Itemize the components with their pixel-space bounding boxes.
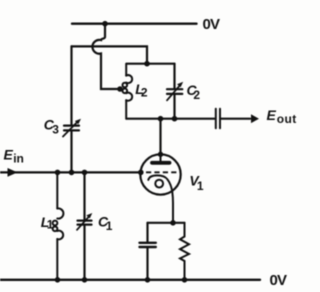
svg-text:E: E (4, 147, 14, 163)
node dot L1 column (55, 170, 61, 176)
svg-text:1: 1 (197, 179, 204, 193)
inductor L1 (53, 172, 64, 279)
svg-text:out: out (277, 112, 297, 126)
node cathode junction (170, 220, 176, 226)
node L1 bottom junction (55, 277, 61, 283)
svg-text:E: E (267, 107, 277, 123)
arrow input (8, 168, 18, 177)
capacitor C3 (variable) (63, 46, 81, 172)
tube V1 envelope (140, 154, 180, 194)
node junction on top rail (102, 21, 108, 27)
node resistor bottom junction (182, 277, 188, 283)
node anode junction (158, 116, 164, 122)
node bypass capacitor bottom junction (145, 277, 151, 283)
node dot C3 column (69, 170, 75, 176)
tube anode plate (160, 155, 162, 162)
tube grid dashed (146, 171, 178, 173)
wire ground to L2 tap with hop over crossing (92, 24, 119, 89)
capacitor coupling (output) (215, 109, 217, 128)
resistor cathode (180, 223, 189, 280)
node dot C1 column (82, 170, 88, 176)
wire tank bottom / output line (127, 118, 216, 120)
svg-text:0V: 0V (270, 272, 288, 289)
wire C3 to tank top (72, 46, 148, 63)
arrow Eout (251, 114, 259, 123)
capacitor C2 (variable) (167, 64, 183, 119)
svg-text:3: 3 (52, 123, 59, 137)
node C2 bottom junction (172, 116, 178, 122)
svg-text:0V: 0V (203, 16, 221, 33)
node L2 tap dot (117, 86, 123, 92)
capacitor cathode bypass (140, 223, 156, 280)
node C1 bottom junction (82, 277, 88, 283)
svg-text:in: in (13, 151, 24, 165)
wire anode drop (159, 119, 161, 155)
wire cathode RC top (148, 222, 185, 224)
svg-text:2: 2 (193, 88, 200, 102)
tube cathode dome and lead (148, 175, 173, 222)
node dot at tube top (158, 152, 163, 157)
svg-text:1: 1 (47, 217, 54, 231)
capacitor C1 (variable) (77, 172, 92, 279)
wire Ein input line (0, 171, 141, 173)
wire top 0V rail (72, 23, 197, 25)
inductor L2 (123, 64, 133, 119)
wire tank top (127, 63, 175, 65)
node dot grid entry (138, 170, 144, 176)
svg-text:2: 2 (141, 85, 148, 99)
wire bottom 0V rail (0, 279, 260, 281)
svg-text:1: 1 (106, 219, 113, 233)
tube heater circle (155, 180, 163, 188)
node junction tank top (144, 61, 150, 67)
wire to Eout (220, 118, 250, 120)
